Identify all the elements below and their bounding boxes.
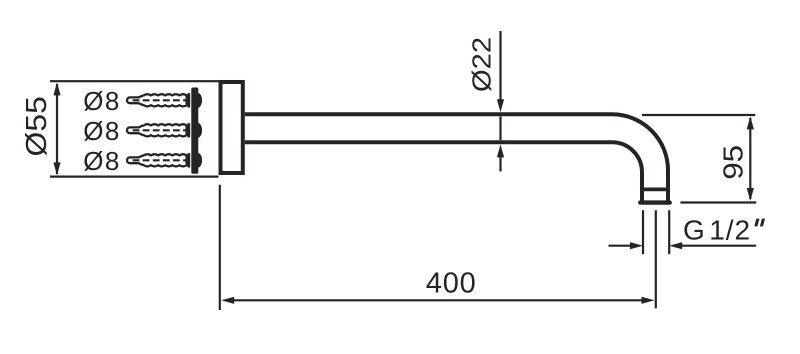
label Ø55 — [21, 96, 52, 156]
dimension 95 arrow line — [747, 116, 754, 201]
G 1/2 left extension line — [642, 210, 644, 254]
G 1/2 right extension line — [668, 210, 670, 254]
dimension Ø22 inner tick — [499, 117, 501, 141]
dimension 95 top extension line — [642, 114, 755, 116]
wall plate flange — [221, 82, 243, 173]
dimension 95 bottom extension line — [680, 201, 756, 203]
fitting separation line — [642, 187, 668, 191]
screw 1 with wall plug — [127, 93, 202, 108]
dimension Ø22 upper leader — [497, 31, 504, 112]
svg-text:95: 95 — [718, 145, 749, 180]
dimension Ø55 arrow line — [53, 82, 60, 175]
dimension Ø55 top extension line — [50, 80, 219, 82]
svg-text:Ø55: Ø55 — [21, 96, 52, 156]
wall bar (anchor strip) — [191, 88, 198, 174]
svg-text:400: 400 — [426, 268, 477, 300]
label G 1/2" — [683, 214, 765, 245]
dimension 400 middle extension line — [655, 210, 657, 308]
label 400 — [426, 268, 477, 300]
tube bottom outline with inner bend — [245, 142, 642, 201]
svg-text:1/2: 1/2 — [709, 214, 751, 245]
svg-text:Ø8: Ø8 — [83, 146, 121, 176]
G 1/2 left arrow — [609, 242, 644, 249]
dimension Ø55 bottom extension line — [50, 176, 219, 178]
svg-text:Ø8: Ø8 — [83, 86, 121, 116]
dimension 400 left extension line — [219, 185, 221, 310]
label Ø22 — [467, 37, 496, 92]
label Ø8 screw 3 — [83, 146, 121, 176]
G 1/2 right arrow — [669, 242, 756, 249]
svg-text:Ø8: Ø8 — [83, 116, 121, 146]
dimension Ø22 lower leader — [497, 144, 504, 171]
svg-text:Ø22: Ø22 — [467, 37, 496, 92]
dimension 400 arrow line — [221, 297, 654, 304]
svg-text:G: G — [683, 214, 705, 245]
screw 2 with wall plug — [127, 123, 202, 138]
label Ø8 screw 2 — [83, 116, 121, 146]
label 95 — [718, 145, 749, 180]
screw 3 with wall plug — [127, 153, 202, 168]
tube top outline with outer bend — [245, 114, 668, 201]
label Ø8 screw 1 — [83, 86, 121, 116]
fitting bottom cap — [640, 200, 669, 204]
